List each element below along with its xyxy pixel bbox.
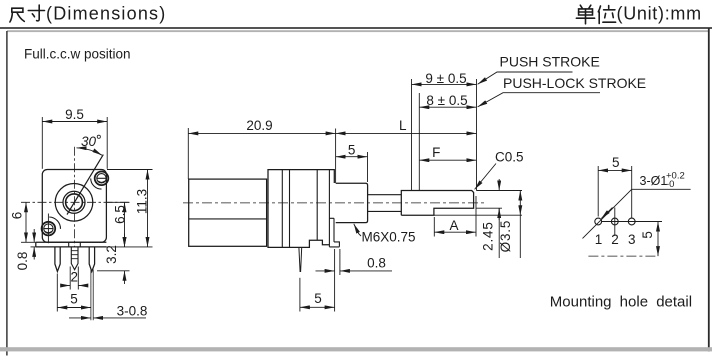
svg-text:11.3: 11.3: [135, 189, 150, 214]
svg-text:A: A: [449, 218, 458, 233]
dim 9+-0.5: [412, 79, 477, 190]
dim 8+-0.5: [419, 106, 476, 108]
title underline: [0, 27, 712, 29]
dim 0.8 side: [316, 249, 393, 275]
svg-text:3.2: 3.2: [104, 245, 119, 264]
rear body inner line: [189, 218, 267, 220]
svg-text:9 ± 0.5: 9 ± 0.5: [425, 71, 466, 86]
svg-text:(Unit):mm: (Unit):mm: [617, 4, 702, 24]
horizontal centerline: [21, 201, 130, 203]
pin right front: [89, 247, 94, 272]
dim 9.5: [42, 117, 107, 169]
front body outline: [42, 170, 106, 243]
slot line 30deg: [67, 155, 103, 215]
svg-text:5: 5: [70, 292, 78, 307]
svg-text:Mounting hole detail: Mounting hole detail: [550, 294, 692, 311]
svg-text:30: 30: [81, 134, 97, 149]
bushing side: [336, 183, 368, 222]
dim 6.5 right: [97, 202, 153, 247]
shaft inner circle: [66, 194, 83, 211]
hole 3: [628, 218, 635, 225]
dim 5 bottom front: [57, 274, 91, 312]
dim 6 left: [21, 202, 36, 242]
screw bottom-left: [42, 214, 61, 244]
side pin: [299, 247, 302, 272]
front section outline: [268, 170, 334, 248]
svg-text:3-Ø1: 3-Ø1: [640, 174, 668, 188]
front section disc lines: [282, 170, 317, 248]
front mounting plate: [36, 242, 107, 247]
svg-text:Ø3.5: Ø3.5: [498, 220, 513, 252]
svg-text:F: F: [432, 145, 440, 160]
svg-text:1: 1: [595, 232, 603, 247]
dim 3-0.8: [69, 317, 146, 319]
leader 3-diam1: [583, 189, 691, 238]
dim 20.9: [188, 128, 335, 183]
hole 2: [611, 218, 618, 225]
pin left front: [55, 247, 60, 272]
svg-text:2: 2: [70, 270, 78, 285]
svg-text:3-0.8: 3-0.8: [117, 304, 148, 319]
svg-text:Full.c.c.w position: Full.c.c.w position: [24, 47, 131, 62]
svg-text:9.5: 9.5: [65, 107, 84, 122]
hole 1: [595, 218, 602, 225]
main shaft with flat: [401, 191, 473, 216]
svg-text:C0.5: C0.5: [495, 150, 524, 165]
dim 5 bushing: [336, 152, 368, 182]
svg-text:5: 5: [640, 231, 655, 239]
svg-text:5: 5: [314, 291, 322, 306]
svg-text:3: 3: [628, 232, 636, 247]
svg-text:0.8: 0.8: [15, 252, 30, 271]
dim diam 3.5: [434, 191, 522, 259]
svg-text:6: 6: [10, 212, 25, 220]
svg-text:20.9: 20.9: [246, 118, 272, 133]
screw top-right: [91, 172, 109, 190]
dim 5 detail top: [598, 166, 632, 218]
dim 3.2 right: [97, 234, 130, 285]
bushing circle: [63, 191, 85, 213]
dim 0.8 left: [31, 229, 36, 260]
svg-text:PUSH STROKE: PUSH STROKE: [500, 54, 600, 70]
pin middle front: [69, 242, 81, 269]
svg-text:(Dimensions): (Dimensions): [46, 4, 166, 24]
svg-text:8 ± 0.5: 8 ± 0.5: [426, 93, 467, 108]
svg-text:-0: -0: [666, 179, 674, 190]
frame bottom grey band: [0, 347, 712, 351]
dim 5 side bottom: [300, 249, 335, 312]
mounting plate side: [329, 170, 339, 247]
frame top grey band: [7, 30, 709, 32]
title text 单位 (CJK drawn as strokes): [576, 5, 615, 24]
vertical centerline: [74, 147, 76, 247]
frame right border: [708, 28, 710, 352]
svg-text:M6X0.75: M6X0.75: [362, 230, 416, 245]
dim A: [434, 196, 476, 237]
side centerline: [183, 202, 486, 204]
detail centerline: [588, 255, 658, 257]
pin right extension lines: [91, 270, 93, 321]
dim 2.45: [476, 179, 522, 258]
dim 11.3 right: [107, 170, 153, 247]
svg-text:L: L: [399, 118, 407, 133]
dim 5 detail right: [602, 208, 662, 257]
svg-text:2.45: 2.45: [480, 221, 495, 250]
svg-text:PUSH-LOCK STROKE: PUSH-LOCK STROKE: [503, 75, 646, 91]
title text 尺寸 (CJK drawn as strokes): [10, 5, 45, 22]
shaft outer circle: [55, 184, 93, 222]
svg-text:5: 5: [612, 155, 620, 170]
dim L: [336, 79, 477, 191]
svg-text:0.8: 0.8: [367, 256, 386, 271]
dim 2 bottom: [62, 267, 88, 290]
svg-text:5: 5: [348, 143, 356, 158]
frame left border: [6, 31, 8, 356]
thin shaft: [368, 195, 402, 212]
angle arc 30deg: [77, 148, 103, 155]
svg-text:6.5: 6.5: [113, 205, 128, 224]
dim F: [419, 93, 476, 190]
rear body: [189, 179, 267, 246]
